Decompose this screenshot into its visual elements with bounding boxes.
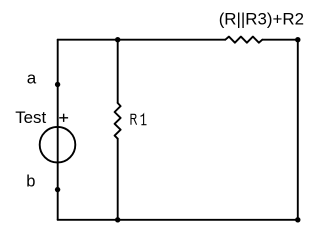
label R1 [131, 114, 147, 124]
wire top-left segment [58, 39, 225, 41]
node b junction dot [55, 187, 60, 192]
svg-text:b: b [26, 173, 35, 191]
junction dot bottom middle [115, 217, 120, 222]
wire bottom [58, 219, 298, 221]
svg-text:a: a [27, 69, 37, 88]
resistor (R||R3)+R2 zigzag [225, 37, 262, 43]
svg-text:Test: Test [15, 108, 46, 127]
wire top-right segment [262, 39, 298, 41]
plus polarity sign [59, 114, 68, 122]
wire middle vertical lower [117, 139, 119, 220]
svg-text:(R||R3)+R2: (R||R3)+R2 [219, 10, 304, 29]
junction dot bottom right [295, 217, 300, 222]
resistor R1 zigzag [115, 103, 121, 139]
wire middle vertical upper [117, 40, 119, 103]
junction dot top middle [115, 37, 120, 42]
junction dot top right [295, 37, 300, 42]
wire right vertical [297, 40, 299, 220]
voltage source Test circle [40, 127, 76, 163]
node a junction dot [55, 82, 60, 87]
wire left vertical [57, 40, 59, 220]
